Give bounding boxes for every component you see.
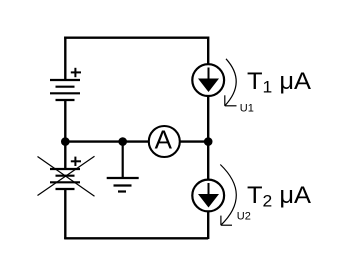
wire battery V1 bottom to node A xyxy=(64,100,66,142)
label U1 xyxy=(240,102,254,114)
wire ground tap down to ground symbol xyxy=(122,142,124,178)
wire top from battery V1 top to current source U1 top xyxy=(64,37,208,39)
node A junction dot xyxy=(61,137,70,146)
annotation arrow for U1 xyxy=(225,59,237,106)
svg-text:U1: U1 xyxy=(240,102,254,114)
battery V2 (crossed out) xyxy=(50,169,80,189)
battery V1 xyxy=(50,80,80,100)
label + polarity of battery V2 xyxy=(71,157,81,166)
wire bottom rail xyxy=(64,237,208,239)
label + polarity of battery V1 xyxy=(71,68,81,77)
current source U1 xyxy=(192,64,224,96)
ground xyxy=(107,178,139,192)
ground tap junction dot xyxy=(118,137,127,146)
wire node A down to battery V2 xyxy=(64,142,66,169)
wire left rail top into battery V1 xyxy=(64,37,66,81)
wire battery V2 bottom to bottom rail xyxy=(64,189,66,239)
annotation arrow for U2 xyxy=(220,165,236,226)
label U2 xyxy=(237,211,251,223)
current source U2 xyxy=(192,180,224,212)
node B junction dot xyxy=(204,137,213,146)
value label T2 uA xyxy=(247,182,311,210)
svg-text:T2 μA: T2 μA xyxy=(247,182,311,210)
wire node B down to current source U2 xyxy=(207,142,209,180)
svg-text:T1 μA: T1 μA xyxy=(247,69,311,97)
ammeter M1 xyxy=(149,125,180,157)
wire ground tap to ammeter left terminal xyxy=(123,140,150,142)
svg-text:A: A xyxy=(155,125,173,155)
wire current source U1 to node B xyxy=(207,96,209,142)
value label T1 uA xyxy=(247,69,311,97)
svg-text:U2: U2 xyxy=(237,211,251,223)
X cross-out over battery V2 xyxy=(38,156,95,196)
wire top rail down to current source U1 xyxy=(207,37,209,65)
wire node A to ground tap xyxy=(65,140,122,142)
wire ammeter right terminal to node B xyxy=(180,140,209,142)
wire current source U2 to bottom rail xyxy=(207,212,209,240)
